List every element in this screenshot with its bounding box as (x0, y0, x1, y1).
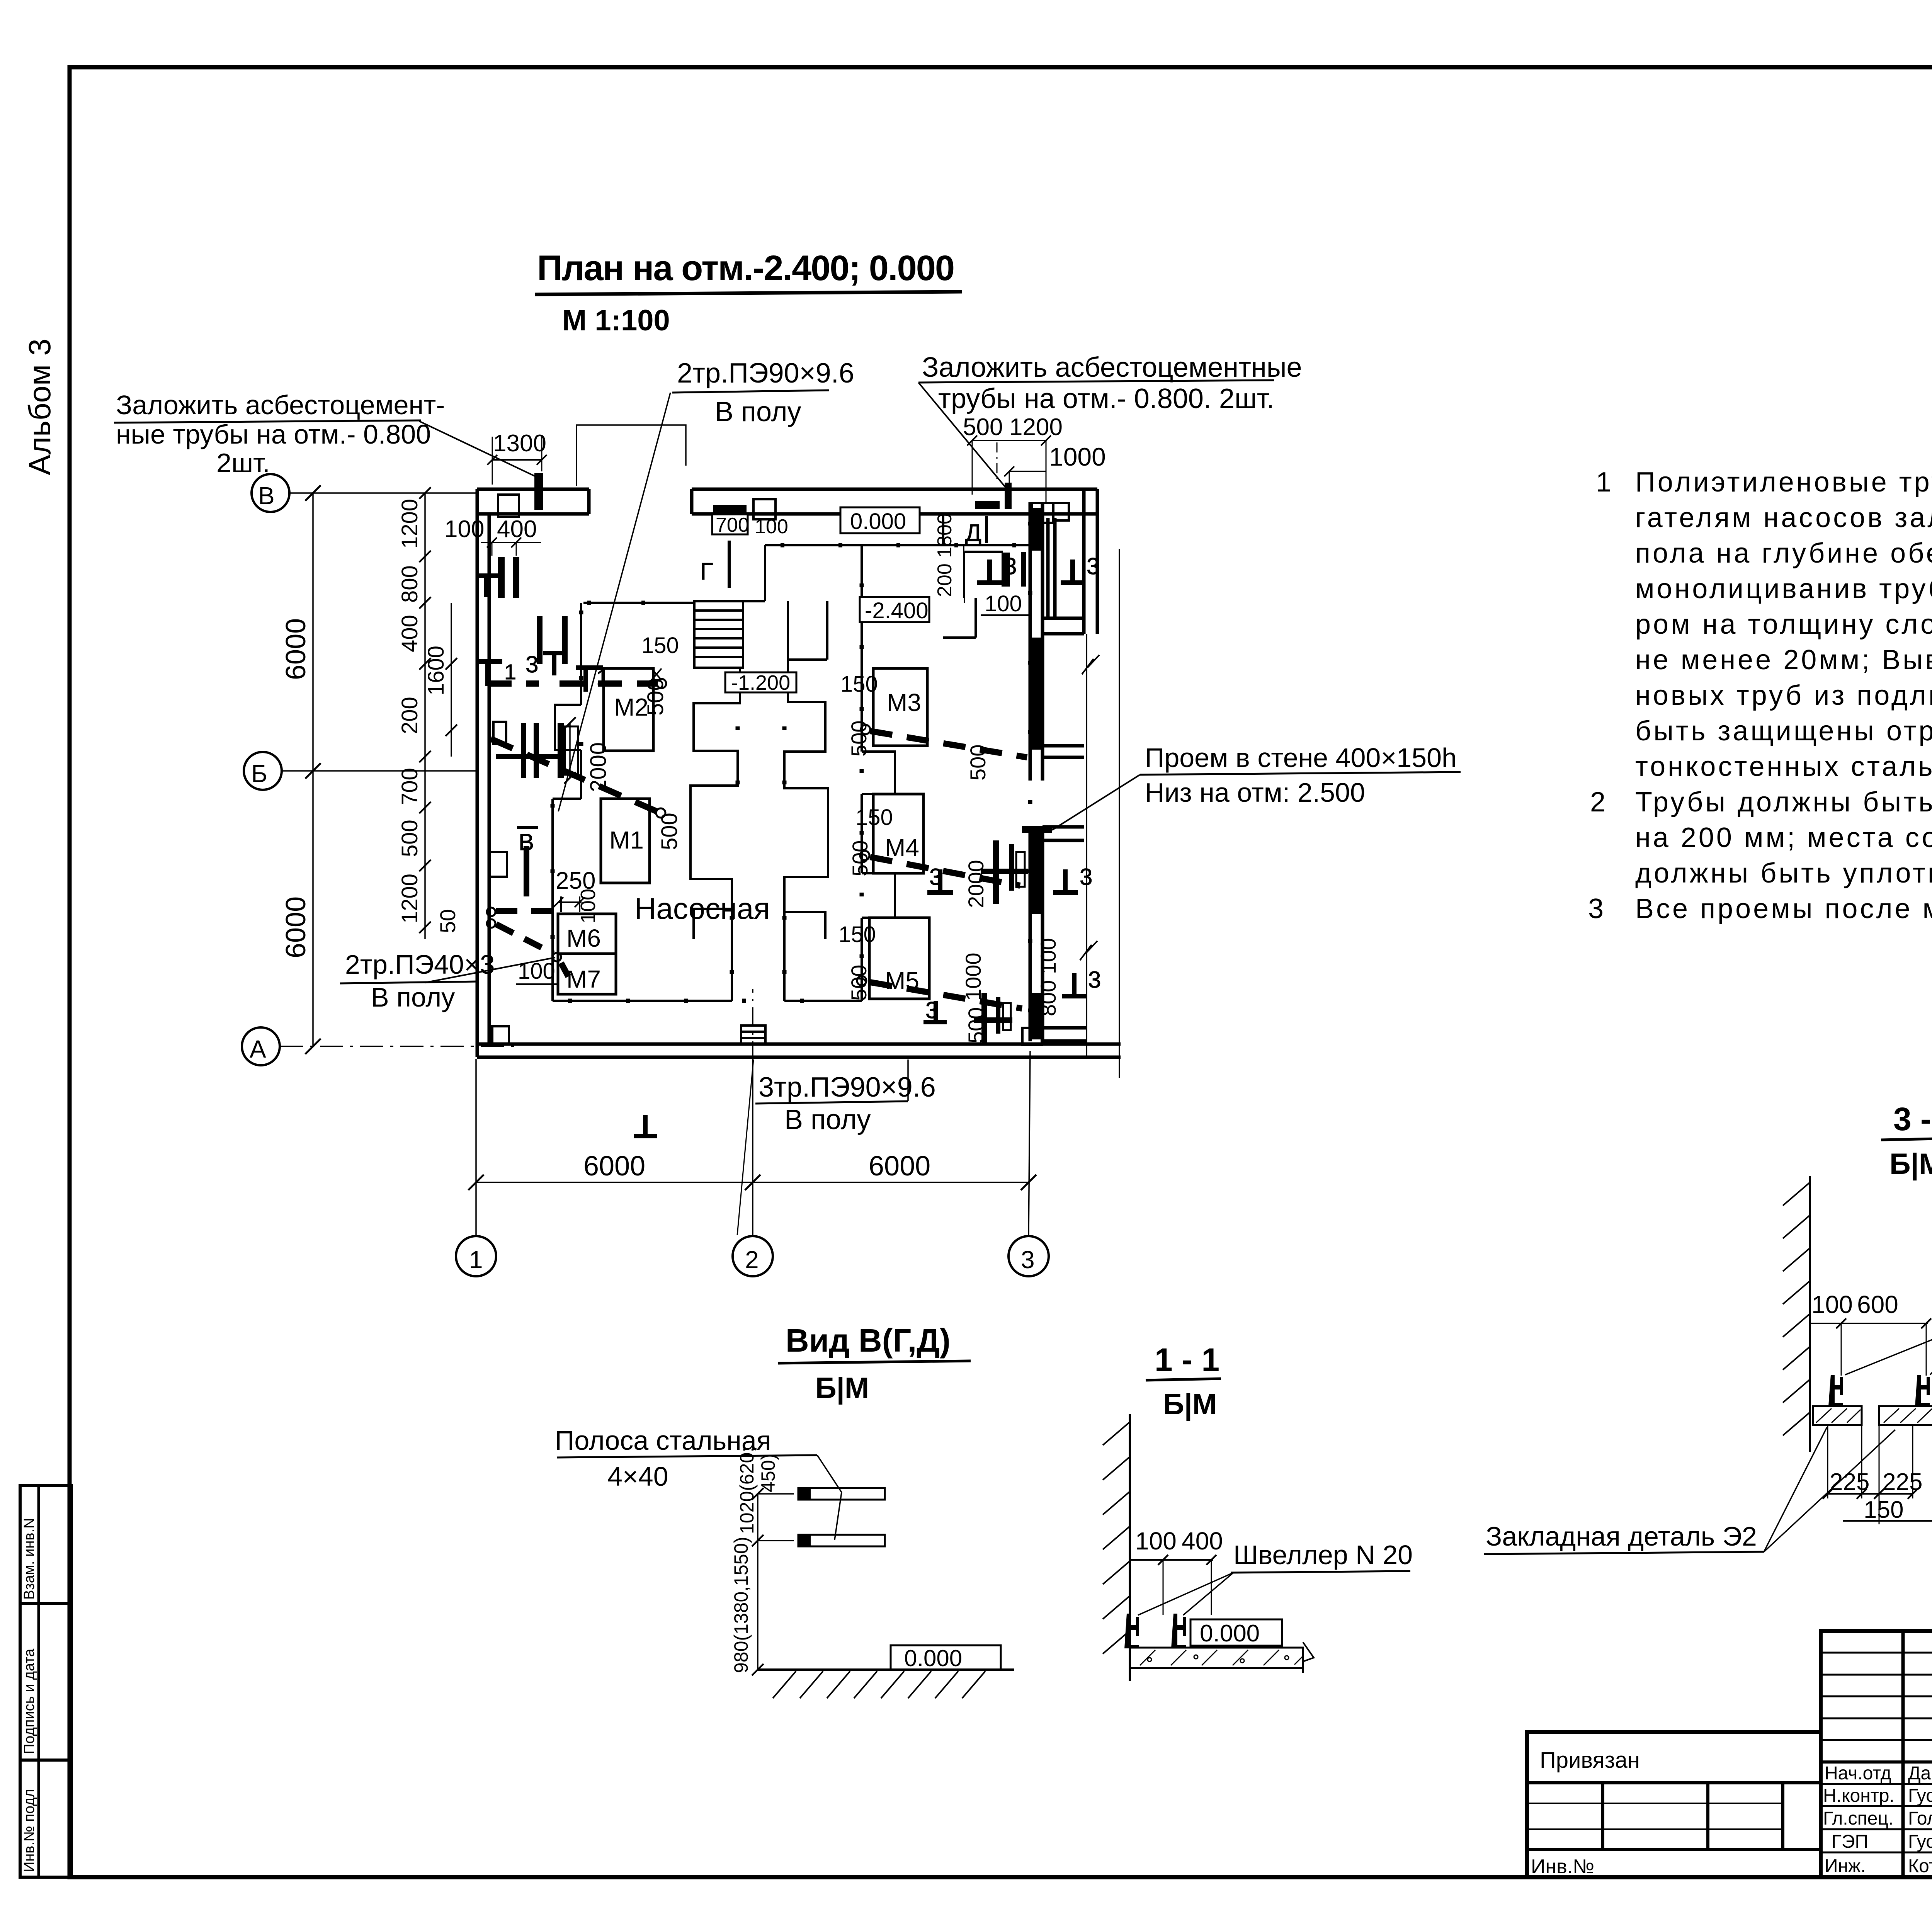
svg-text:Насосная: Насосная (634, 891, 770, 925)
svg-text:2000: 2000 (586, 742, 611, 792)
svg-text:Д: Д (965, 520, 981, 546)
svg-text:100: 100 (444, 516, 484, 543)
svg-text:3: 3 (1588, 893, 1606, 924)
svg-text:2шт.: 2шт. (216, 448, 270, 478)
svg-text:Швеллер N 20: Швеллер N 20 (1233, 1540, 1413, 1570)
svg-text:Б|М: Б|М (815, 1372, 869, 1405)
svg-text:0.000: 0.000 (904, 1645, 962, 1671)
svg-text:монолициванив труб бетонным: монолициванив труб бетонным раство- (1635, 573, 1932, 604)
svg-text:не менее 20мм; Выводы полиэ: не менее 20мм; Выводы полиэтиле- (1635, 645, 1932, 675)
svg-text:1: 1 (504, 660, 516, 684)
svg-text:Инв.№: Инв.№ (1531, 1855, 1594, 1878)
svg-text:100: 100 (985, 591, 1022, 616)
svg-text:450): 450) (757, 1454, 779, 1492)
svg-text:600: 600 (1857, 1291, 1898, 1318)
svg-text:3: 3 (1087, 553, 1099, 579)
svg-text:400: 400 (397, 615, 422, 652)
svg-text:В: В (258, 482, 275, 510)
svg-text:Альбом 3: Альбом 3 (22, 338, 57, 475)
svg-text:2000: 2000 (964, 860, 988, 908)
svg-text:150: 150 (838, 922, 876, 947)
svg-text:3: 3 (925, 997, 938, 1023)
svg-text:1600: 1600 (423, 646, 449, 696)
svg-text:1200: 1200 (1009, 414, 1063, 440)
svg-text:500: 500 (964, 1007, 988, 1043)
svg-text:6000: 6000 (281, 618, 311, 680)
svg-text:Заложить асбестоцементные: Заложить асбестоцементные (922, 352, 1302, 383)
svg-text:Б: Б (251, 760, 267, 787)
svg-text:тонкостенных стальных труб.: тонкостенных стальных труб. (1635, 751, 1932, 782)
svg-text:ГЭП: ГЭП (1832, 1832, 1868, 1852)
svg-text:800: 800 (397, 565, 422, 603)
svg-text:Подпись и дата: Подпись и дата (21, 1648, 37, 1754)
svg-text:500: 500 (397, 820, 422, 857)
svg-text:В полу: В полу (715, 396, 801, 427)
svg-text:1000: 1000 (961, 952, 985, 1001)
svg-text:200: 200 (397, 697, 422, 734)
svg-text:пола на глубине обеспечиваю: пола на глубине обеспечивающей за- (1635, 538, 1932, 569)
svg-text:М3: М3 (887, 689, 921, 716)
svg-text:Инж.: Инж. (1825, 1856, 1866, 1876)
svg-text:1: 1 (596, 665, 608, 689)
svg-text:1: 1 (469, 1246, 483, 1274)
svg-text:Проем в стене 400×150h: Проем в стене 400×150h (1145, 743, 1457, 773)
svg-text:М 1:100: М 1:100 (562, 304, 670, 337)
svg-text:700: 700 (716, 514, 749, 536)
svg-text:225: 225 (1883, 1469, 1922, 1495)
svg-text:Б|М: Б|М (1163, 1388, 1217, 1421)
svg-text:Гольциман: Гольциман (1908, 1808, 1932, 1829)
svg-text:Заложить асбестоцемент-: Заложить асбестоцемент- (116, 390, 445, 420)
svg-text:3: 3 (1021, 1246, 1035, 1274)
svg-text:500: 500 (963, 414, 1003, 440)
svg-text:100: 100 (518, 959, 555, 984)
svg-text:План на отм.-2.400; 0.000: План на отм.-2.400; 0.000 (537, 248, 954, 288)
svg-text:1000: 1000 (1049, 442, 1106, 471)
svg-text:150: 150 (855, 805, 893, 830)
svg-text:новых труб из подливок пола: новых труб из подливок пола должны (1635, 680, 1932, 711)
svg-text:6000: 6000 (583, 1151, 645, 1182)
svg-text:150: 150 (1864, 1497, 1903, 1523)
svg-text:50: 50 (435, 909, 460, 933)
svg-text:В полу: В полу (371, 982, 455, 1012)
svg-text:100: 100 (1811, 1291, 1853, 1318)
svg-text:Взам. инв.N: Взам. инв.N (21, 1518, 37, 1600)
svg-text:Закладная деталь Э2: Закладная деталь Э2 (1486, 1521, 1757, 1551)
svg-text:1200: 1200 (397, 874, 422, 923)
svg-text:Все проемы после монтажа з: Все проемы после монтажа заделать (1635, 893, 1932, 924)
svg-text:3 - 3: 3 - 3 (1893, 1101, 1932, 1137)
svg-text:М6: М6 (566, 924, 601, 952)
svg-text:Г: Г (700, 558, 713, 585)
svg-text:-1.200: -1.200 (731, 671, 790, 694)
svg-text:трубы на отм.- 0.800. 2шт.: трубы на отм.- 0.800. 2шт. (938, 383, 1274, 414)
svg-text:500: 500 (657, 813, 682, 850)
svg-text:500: 500 (848, 840, 872, 876)
svg-text:Вид В(Г,Д): Вид В(Г,Д) (786, 1322, 951, 1359)
svg-text:6000: 6000 (869, 1151, 930, 1182)
svg-text:3: 3 (526, 651, 538, 677)
svg-text:100: 100 (1135, 1527, 1177, 1555)
svg-text:Н.контр.: Н.контр. (1823, 1786, 1895, 1806)
svg-text:400: 400 (1182, 1527, 1223, 1555)
svg-text:150: 150 (641, 633, 679, 658)
svg-text:Б|М: Б|М (1889, 1148, 1932, 1181)
svg-text:Гусева: Гусева (1908, 1786, 1932, 1806)
svg-text:В: В (519, 829, 534, 855)
svg-text:ные трубы на отм.- 0.800: ные трубы на отм.- 0.800 (116, 419, 431, 449)
svg-text:М4: М4 (885, 834, 919, 862)
svg-text:Инв.№ подл: Инв.№ подл (21, 1789, 37, 1872)
svg-text:400: 400 (497, 516, 537, 543)
svg-text:ром на толщину слоя над т: ром на толщину слоя над трубой (1635, 609, 1932, 640)
svg-text:500: 500 (643, 678, 668, 716)
svg-text:М1: М1 (609, 826, 644, 854)
svg-text:Гусева: Гусева (1908, 1832, 1932, 1852)
svg-text:быть защищены отрезками из: быть защищены отрезками из (1635, 716, 1932, 747)
svg-text:Нач.отд: Нач.отд (1825, 1763, 1891, 1784)
svg-text:М7: М7 (566, 965, 601, 993)
svg-text:на 200 мм; места соединения: на 200 мм; места соединения труб (1635, 822, 1932, 853)
svg-text:0.000: 0.000 (850, 509, 906, 534)
svg-text:200 1800: 200 1800 (934, 513, 956, 597)
svg-text:800 100: 800 100 (1036, 938, 1060, 1016)
svg-text:1 - 1: 1 - 1 (1155, 1342, 1219, 1378)
svg-text:3: 3 (1088, 967, 1101, 993)
svg-text:6000: 6000 (281, 896, 311, 958)
svg-text:Привязан: Привязан (1540, 1748, 1640, 1773)
svg-text:Трубы должны быть Выведены: Трубы должны быть Выведены из пола (1635, 787, 1932, 818)
svg-text:100: 100 (755, 515, 788, 538)
svg-text:1200: 1200 (397, 499, 422, 549)
svg-text:Полиэтиленовые трубы к элек: Полиэтиленовые трубы к электродви- (1635, 467, 1932, 498)
svg-text:3: 3 (929, 864, 942, 890)
svg-text:1300: 1300 (493, 430, 546, 457)
svg-text:3: 3 (1080, 864, 1092, 890)
svg-text:2тр.ПЭ90×9.6: 2тр.ПЭ90×9.6 (677, 358, 854, 389)
svg-text:Данилов: Данилов (1908, 1763, 1932, 1784)
svg-text:500: 500 (966, 745, 990, 781)
svg-text:2: 2 (1590, 787, 1608, 818)
svg-text:-2.400: -2.400 (865, 598, 928, 623)
svg-text:700: 700 (397, 768, 422, 805)
svg-text:150: 150 (840, 672, 878, 697)
svg-text:3тр.ПЭ90×9.6: 3тр.ПЭ90×9.6 (759, 1072, 936, 1103)
svg-text:2: 2 (745, 1246, 759, 1274)
svg-text:должны быть уплотнены.: должны быть уплотнены. (1635, 858, 1932, 889)
svg-text:1: 1 (1596, 467, 1614, 498)
svg-text:2тр.ПЭ40×3: 2тр.ПЭ40×3 (345, 949, 495, 980)
svg-text:1020(620;: 1020(620; (736, 1447, 758, 1534)
svg-text:гателям насосов заложить в: гателям насосов заложить в подготовке (1635, 502, 1932, 533)
svg-text:500: 500 (847, 721, 871, 757)
svg-text:980(1380,1550): 980(1380,1550) (730, 1537, 752, 1673)
svg-text:А: А (250, 1035, 266, 1063)
svg-text:4×40: 4×40 (607, 1461, 668, 1492)
svg-text:500: 500 (847, 965, 871, 1001)
svg-text:Гл.спец.: Гл.спец. (1823, 1808, 1893, 1829)
svg-text:Низ на отм: 2.500: Низ на отм: 2.500 (1145, 777, 1365, 808)
svg-text:В полу: В полу (784, 1104, 871, 1135)
svg-text:0.000: 0.000 (1200, 1620, 1260, 1647)
svg-text:Котова: Котова (1908, 1856, 1932, 1876)
